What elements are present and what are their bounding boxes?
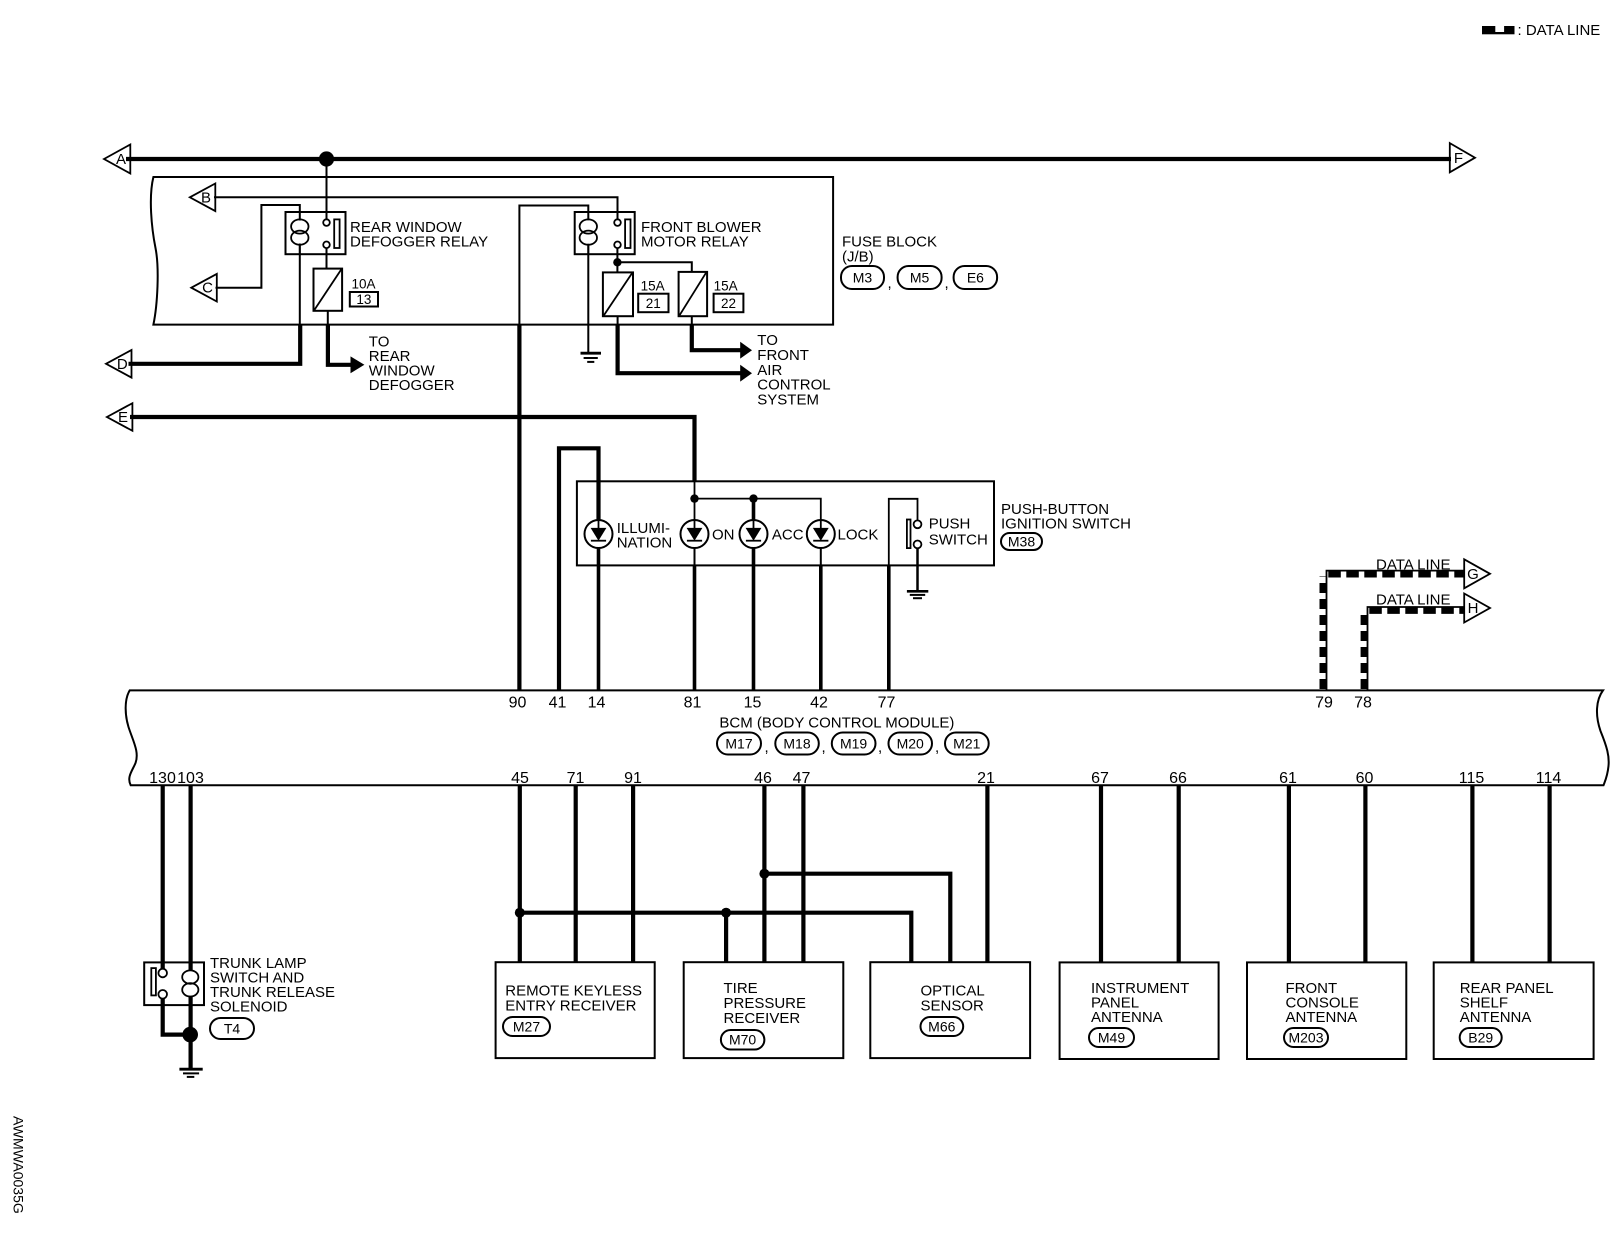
wire: ON to pin 81: [694, 548, 696, 691]
label: TRUNK LAMP SWITCH AND TRUNK RELEASE SOLENOID: [210, 955, 335, 1016]
svg-text:DEFOGGER RELAY: DEFOGGER RELAY: [350, 233, 488, 250]
rear panel shelf antenna box: [1434, 962, 1594, 1059]
svg-text:22: 22: [721, 296, 736, 311]
connector arrow A: [104, 145, 130, 174]
wire: pin 103 to trunk release solenoid: [189, 785, 193, 971]
wire: pin 91 to remote keyless entry receiver: [631, 785, 635, 962]
svg-text:M203: M203: [1288, 1030, 1323, 1046]
pin 14: [588, 695, 606, 712]
wire: fuse 13 to rear window defogger arrow: [328, 311, 365, 373]
wire: LED bus inside switch: [695, 499, 821, 520]
svg-text:15A: 15A: [714, 278, 738, 293]
svg-text:M21: M21: [953, 736, 980, 752]
optical sensor box: [870, 962, 1030, 1058]
wire: pin 61 to front console antenna: [1287, 785, 1291, 962]
svg-text:21: 21: [977, 770, 995, 787]
svg-text:90: 90: [509, 695, 527, 712]
connector T4: [210, 1018, 254, 1039]
label: DATA LINE (G): [1376, 556, 1450, 573]
svg-text:D: D: [117, 356, 128, 373]
svg-text:ANTENNA: ANTENNA: [1091, 1009, 1163, 1026]
pin 78: [1354, 695, 1372, 712]
pin 67: [1091, 770, 1109, 787]
data line: pin 79 to G: [1323, 571, 1464, 691]
junction: front relay contact to fuse 22 branch: [613, 258, 621, 266]
wire: rear relay coil to connector D (thick): [129, 324, 301, 364]
LED: LOCK: [807, 520, 835, 548]
label: ON: [712, 526, 735, 543]
svg-text:10A: 10A: [352, 277, 376, 292]
svg-text:M3: M3: [853, 270, 873, 286]
wire: bus to ON LED: [694, 499, 696, 520]
wire: pin 47 to tire pressure receiver: [801, 785, 805, 962]
svg-text:SENSOR: SENSOR: [921, 998, 985, 1015]
connector arrow G: [1464, 559, 1490, 588]
wire: pin 46 to tire pressure receiver: [762, 785, 766, 962]
svg-text:DATA LINE: DATA LINE: [1376, 556, 1450, 573]
push switch: [907, 520, 921, 549]
svg-text:60: 60: [1356, 770, 1374, 787]
svg-text:115: 115: [1459, 770, 1485, 787]
wire: pin 77 below box: [887, 565, 891, 690]
wire: main power bus A to F: [126, 157, 1451, 161]
connector M5: [898, 266, 949, 292]
svg-text:LOCK: LOCK: [838, 526, 879, 543]
svg-text:21: 21: [646, 296, 661, 311]
svg-text:H: H: [1468, 600, 1479, 617]
pin 60: [1356, 770, 1374, 787]
instrument panel antenna box: [1060, 962, 1219, 1059]
connector arrow E: [107, 403, 132, 431]
connector M70: [721, 1030, 765, 1050]
junction: bus to rear defogger relay contact: [319, 151, 334, 166]
connector arrow F: [1450, 143, 1475, 172]
svg-text:ENTRY RECEIVER: ENTRY RECEIVER: [505, 998, 636, 1015]
label: FRONT CONSOLE ANTENNA: [1286, 980, 1359, 1026]
svg-text:ANTENNA: ANTENNA: [1460, 1009, 1532, 1026]
wire: pin 41 riser to ILLUMINATION: [559, 448, 599, 690]
svg-text:DATA LINE: DATA LINE: [1376, 591, 1450, 608]
pin 130: [149, 770, 176, 787]
push-button ignition switch box: [577, 481, 994, 565]
svg-text:47: 47: [793, 770, 811, 787]
connector M49: [1089, 1028, 1134, 1047]
wire: pin 90 riser below fuse block: [517, 324, 521, 691]
wire: ILLUMINATION to pin 14: [597, 548, 601, 691]
svg-text:M66: M66: [928, 1019, 955, 1035]
connector M27: [503, 1017, 550, 1036]
svg-text:14: 14: [588, 695, 606, 712]
svg-text:SYSTEM: SYSTEM: [757, 391, 819, 408]
connector arrow D: [106, 350, 132, 378]
svg-text:,: ,: [935, 739, 939, 756]
svg-text:103: 103: [177, 770, 204, 787]
wire: pin 21 to optical sensor: [985, 785, 989, 962]
svg-text:M38: M38: [1008, 533, 1035, 549]
svg-text:DEFOGGER: DEFOGGER: [369, 377, 455, 394]
svg-text:61: 61: [1279, 770, 1297, 787]
wire: branch pin 46 to optical sensor: [764, 874, 950, 963]
svg-text:ANTENNA: ANTENNA: [1286, 1009, 1358, 1026]
svg-text:81: 81: [684, 695, 702, 712]
pin 45: [511, 770, 529, 787]
svg-text:SWITCH: SWITCH: [929, 531, 988, 548]
svg-text:E6: E6: [967, 270, 984, 286]
wire: rear relay contact to fuse 13: [326, 248, 328, 269]
svg-text:M19: M19: [840, 736, 867, 752]
svg-text:BCM (BODY CONTROL MODULE): BCM (BODY CONTROL MODULE): [719, 714, 954, 731]
svg-text:M20: M20: [897, 736, 924, 752]
pin 66: [1169, 770, 1187, 787]
wire: trunk solenoid to ground: [189, 996, 193, 1068]
connector M17: [717, 733, 769, 757]
junction: bus at ACC: [749, 494, 757, 502]
pin 90: [509, 695, 527, 712]
legend: data line symbol: [1482, 22, 1600, 39]
svg-text:66: 66: [1169, 770, 1187, 787]
junction: trunk switch and solenoid common: [182, 1027, 198, 1043]
wire: fuse 22 to front air control system (upper arrow): [692, 316, 752, 358]
label: FRONT BLOWER MOTOR RELAY: [641, 219, 762, 251]
label: 15A [21]: [638, 278, 668, 312]
wire: push switch top to pin 77: [889, 499, 918, 566]
svg-text:42: 42: [810, 695, 828, 712]
wire: B to front blower relay contact: [214, 197, 618, 219]
label: INSTRUMENT PANEL ANTENNA: [1091, 980, 1189, 1026]
connector M21: [945, 733, 989, 755]
label: OPTICAL SENSOR: [921, 983, 985, 1015]
svg-text:MOTOR RELAY: MOTOR RELAY: [641, 233, 749, 250]
wire: pin 115 to rear panel shelf antenna: [1470, 785, 1474, 962]
svg-text:T4: T4: [224, 1021, 241, 1037]
svg-text:M18: M18: [783, 736, 810, 752]
relay: front blower motor relay: [575, 212, 635, 254]
label: REMOTE KEYLESS ENTRY RECEIVER: [505, 983, 642, 1015]
svg-text:79: 79: [1315, 695, 1333, 712]
wire: pin 130 to trunk lamp switch: [161, 785, 165, 968]
connector M66: [921, 1017, 964, 1036]
wire: E to LED supply bus: [130, 417, 695, 499]
svg-text:E: E: [118, 409, 128, 426]
connector arrow B: [190, 184, 216, 212]
svg-text:78: 78: [1354, 695, 1372, 712]
svg-text:15A: 15A: [641, 278, 665, 293]
svg-text:M5: M5: [910, 270, 930, 286]
fuse 15A 21: [603, 272, 633, 316]
tire pressure receiver box: [684, 962, 844, 1058]
wire: fuse 21 to front air control system (lower arrow): [618, 316, 752, 381]
label: PUSH SWITCH: [929, 516, 988, 549]
svg-text:B29: B29: [1468, 1030, 1493, 1046]
pin 21: [977, 770, 995, 787]
pin 47: [793, 770, 811, 787]
pin 77: [878, 695, 896, 712]
svg-text:ON: ON: [712, 526, 735, 543]
fuse 10A 13: [314, 269, 343, 311]
junction: tire pressure branch: [721, 908, 731, 918]
label: LOCK: [838, 526, 879, 543]
svg-text:,: ,: [765, 739, 769, 756]
fuse block (J/B) outline: [151, 177, 833, 325]
svg-text:,: ,: [878, 739, 882, 756]
label: REAR PANEL SHELF ANTENNA: [1460, 980, 1554, 1026]
pin 114: [1536, 770, 1562, 787]
wire: pin 114 to rear panel shelf antenna: [1547, 785, 1551, 962]
label: TO REAR WINDOW DEFOGGER: [369, 334, 455, 395]
wire: C to rear defogger relay coil: [216, 205, 300, 288]
label: ILLUMI-NATION: [617, 520, 673, 552]
label: FUSE BLOCK (J/B): [842, 234, 937, 266]
wire: pin 60 to front console antenna: [1363, 785, 1367, 962]
pin 15: [744, 695, 762, 712]
junction: bus at ON: [690, 494, 698, 502]
connector E6: [954, 266, 998, 289]
wire: pin 71 to remote keyless entry receiver: [574, 785, 578, 962]
svg-text:AWMWA0035G: AWMWA0035G: [11, 1116, 27, 1214]
svg-text:67: 67: [1091, 770, 1109, 787]
svg-text:: DATA LINE: : DATA LINE: [1518, 22, 1601, 39]
pin 61: [1279, 770, 1297, 787]
svg-text:71: 71: [567, 770, 585, 787]
wire: front relay contact to fuses 21 and 22: [617, 248, 691, 272]
connector B29: [1460, 1028, 1502, 1047]
label: PUSH-BUTTON IGNITION SWITCH: [1001, 501, 1131, 533]
LED: illumination: [585, 520, 613, 548]
svg-text:IGNITION SWITCH: IGNITION SWITCH: [1001, 516, 1131, 533]
svg-text:A: A: [116, 151, 126, 168]
svg-text:F: F: [1454, 150, 1463, 167]
wire: rear relay coil down inside fuse block: [299, 244, 301, 325]
wire: pin 45 to remote keyless entry receiver: [518, 785, 522, 962]
junction: pin 46 branch: [759, 869, 769, 879]
svg-text:(J/B): (J/B): [842, 249, 874, 266]
connector M203: [1284, 1028, 1328, 1047]
pin 115: [1459, 770, 1485, 787]
remote keyless entry receiver box: [496, 962, 655, 1058]
svg-text:ACC: ACC: [772, 526, 804, 543]
connector M3: [841, 266, 892, 292]
svg-text:130: 130: [149, 770, 176, 787]
connector arrow H: [1464, 594, 1490, 623]
trunk lamp switch and trunk release solenoid box: [144, 962, 204, 1005]
svg-text:C: C: [202, 280, 213, 297]
svg-text:13: 13: [356, 292, 371, 307]
label: TO FRONT AIR CONTROL SYSTEM: [757, 332, 830, 408]
svg-text:M70: M70: [729, 1032, 756, 1048]
svg-text:PUSH: PUSH: [929, 516, 971, 533]
svg-text:114: 114: [1536, 770, 1562, 787]
wire: LOCK to pin 42: [820, 548, 822, 691]
wire: bus junction down to rear relay contact: [326, 159, 328, 219]
pin 103: [177, 770, 204, 787]
svg-text:M17: M17: [725, 736, 752, 752]
ground: push switch: [907, 591, 928, 598]
label: 10A [13]: [350, 277, 378, 308]
connector M38: [1001, 533, 1042, 550]
BCM (body control module) box: [126, 690, 1609, 785]
label: ACC: [772, 526, 804, 543]
ground: front relay coil: [581, 353, 602, 362]
connector M18: [775, 733, 825, 757]
pin 41: [549, 695, 567, 712]
svg-text:,: ,: [888, 275, 892, 292]
svg-text:,: ,: [945, 275, 949, 292]
LED: ON: [681, 520, 709, 548]
svg-text:77: 77: [878, 695, 896, 712]
svg-text:45: 45: [511, 770, 529, 787]
wire: push switch bottom to ground: [916, 548, 919, 590]
label: TIRE PRESSURE RECEIVER: [724, 980, 807, 1027]
wire: pin 66 to instrument panel antenna: [1177, 785, 1181, 962]
pin 79: [1315, 695, 1333, 712]
front console antenna box: [1247, 962, 1406, 1059]
connector arrow C: [191, 274, 217, 302]
watermark: AWMWA0035G: [11, 1116, 27, 1214]
pin 42: [810, 695, 828, 712]
pin 81: [684, 695, 702, 712]
svg-text:91: 91: [624, 770, 642, 787]
label: 15A [22]: [714, 278, 744, 312]
label: DATA LINE (H): [1376, 591, 1450, 608]
fuse 15A 22: [679, 272, 708, 316]
svg-text:15: 15: [744, 695, 762, 712]
wire: bus to ACC LED: [752, 499, 756, 520]
ground: trunk: [179, 1069, 202, 1077]
svg-text:SOLENOID: SOLENOID: [210, 998, 288, 1015]
wire: pin 67 to instrument panel antenna: [1099, 785, 1103, 962]
wire: ACC to pin 15: [752, 548, 756, 691]
pin 91: [624, 770, 642, 787]
relay: rear window defogger relay: [286, 212, 346, 254]
wire: branch pin 45 to tire pressure receiver and optical sensor: [520, 913, 912, 963]
data line: pin 78 to H: [1364, 607, 1464, 690]
svg-text:41: 41: [549, 695, 567, 712]
label: BCM (BODY CONTROL MODULE): [719, 714, 954, 731]
svg-text:NATION: NATION: [617, 535, 673, 552]
connector M20: [889, 733, 940, 757]
LED: ACC: [740, 520, 768, 548]
svg-text:RECEIVER: RECEIVER: [724, 1010, 801, 1027]
pin 71: [567, 770, 585, 787]
svg-text:46: 46: [754, 770, 772, 787]
wire: trunk switch to junction: [163, 999, 191, 1035]
svg-text:M27: M27: [513, 1019, 540, 1035]
connector M19: [832, 733, 882, 757]
svg-text:,: ,: [822, 739, 826, 756]
wire: BCM pin 90 feed to front relay coil: [519, 206, 588, 325]
svg-text:G: G: [1467, 566, 1479, 583]
junction: pin 45 branch: [515, 908, 525, 918]
svg-text:M49: M49: [1098, 1030, 1125, 1046]
wire: front relay coil to ground: [587, 244, 589, 352]
label: REAR WINDOW DEFOGGER RELAY: [350, 219, 488, 251]
svg-text:B: B: [201, 189, 211, 206]
pin 46: [754, 770, 772, 787]
